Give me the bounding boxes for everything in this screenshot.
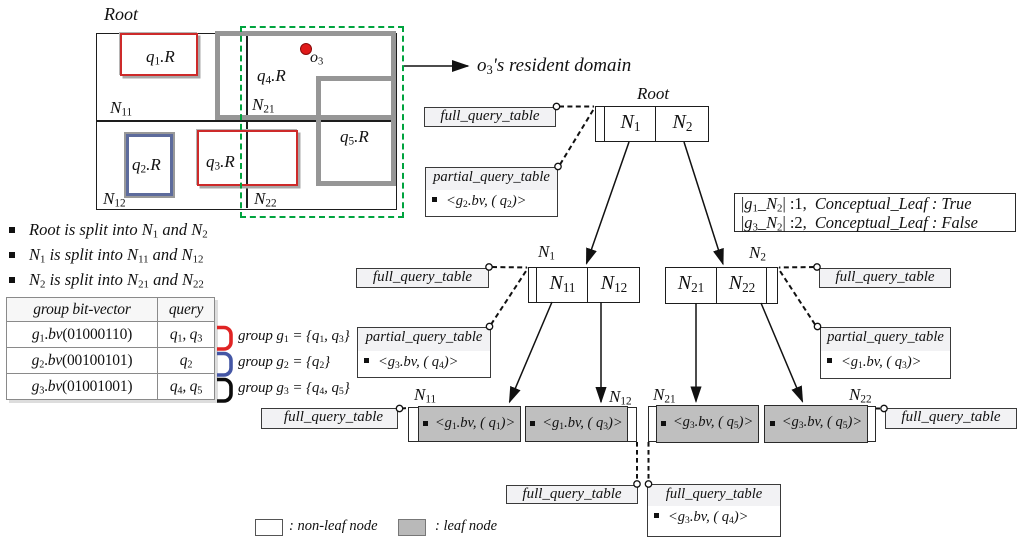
wire arrow Root to N1 — [587, 142, 630, 264]
label o3's resident domain — [477, 55, 631, 77]
label q5.R — [340, 127, 369, 147]
wire vertical split divider — [246, 33, 248, 208]
wire arrow N2 to leaf N21 — [695, 303, 697, 402]
node o3 red dot — [300, 43, 312, 55]
table conceptual leaf info box — [734, 193, 1016, 232]
label q1.R — [146, 47, 175, 67]
label N11 (spatial) — [110, 98, 132, 118]
label Root (spatial) — [104, 4, 138, 25]
node circle pqt-root — [555, 163, 561, 169]
node circle fqt-bottom-N21 — [645, 481, 651, 487]
node circle fqt-bottom-N12 — [634, 481, 640, 487]
wire arrow N1 to leaf N12 — [600, 302, 602, 402]
table partial_query_table (N1) — [357, 327, 491, 378]
wire dashed pqt-N1 to N1 corner — [491, 268, 528, 325]
wire dashed pqt-N2 to N2 corner — [778, 268, 815, 325]
rect q3.R (red) — [197, 130, 298, 186]
legend leaf node box — [398, 519, 426, 536]
label leaf node — [435, 518, 497, 535]
wire dashed N12 down — [636, 442, 638, 481]
label N22 (spatial) — [254, 189, 277, 209]
wire dashed pqt-root to Root corner — [560, 107, 595, 165]
label group g3 — [238, 380, 350, 397]
wire dashed fqt-N2 to N2 corner — [779, 266, 814, 269]
node circle fqt-N1 — [486, 264, 492, 270]
label N21 (leaf) — [653, 385, 676, 405]
table full_query_table (root) — [424, 107, 556, 128]
bracket black group g3 — [217, 380, 231, 402]
rect o3 resident domain (green dashed) — [240, 26, 404, 218]
table partial_query_table (N2) — [820, 327, 951, 379]
label non-leaf node — [289, 518, 378, 535]
label N2 (tree) — [749, 243, 766, 263]
label N12 (spatial) — [103, 189, 126, 209]
node N1 box — [528, 267, 640, 303]
wire dashed fqt-leafleft to N11 — [402, 407, 408, 410]
wire arrow N1 to leaf N11 — [510, 302, 553, 402]
label q2.R — [132, 155, 161, 175]
bracket red group g1 — [217, 328, 231, 350]
table full_query_table (N1) — [356, 268, 489, 289]
node circle fqt-leafright — [881, 405, 887, 411]
bracket blue group g2 — [217, 354, 231, 376]
label Root (tree) — [637, 84, 669, 104]
node leaf N21 — [648, 406, 758, 442]
node Root box — [595, 106, 709, 142]
node leaf N22 — [765, 406, 876, 442]
wire dashed fqt-root to Root corner — [559, 106, 594, 108]
label N11 (leaf) — [414, 385, 436, 405]
wire arrow Root to N2 — [684, 142, 723, 264]
wire dashed fqt-N1 to N1 corner — [492, 266, 527, 269]
node circle fqt-leafleft — [396, 405, 402, 411]
label q4.R — [257, 66, 286, 86]
label N12 (leaf) — [609, 387, 632, 407]
rect q5.R (gray) — [316, 76, 396, 186]
table full_query_table (bottom N12) — [506, 485, 638, 505]
label N1 (tree) — [538, 242, 555, 262]
wire dashed fqt-leafright to N22 — [876, 408, 882, 410]
rect q2.R (blue) — [126, 134, 173, 196]
table full_query_table (bottom N21, with entry) — [647, 484, 781, 537]
label group g1 — [238, 328, 350, 345]
node leaf N12 — [526, 407, 637, 442]
bullet 1: Root is split — [9, 220, 208, 240]
label group g2 — [238, 354, 330, 371]
wire arrow N2 to leaf N22 — [761, 303, 803, 402]
label N22 (leaf) — [849, 385, 872, 405]
node circle fqt-N2 — [814, 264, 820, 270]
rect q4.R (gray) — [215, 31, 396, 120]
bullet 3: N2 is split — [9, 270, 204, 290]
label o3 — [310, 49, 323, 67]
table full_query_table (leaf far left) — [261, 408, 398, 429]
table partial_query_table (root) — [425, 167, 558, 217]
label q3.R — [206, 152, 235, 172]
wire horizontal split divider — [96, 120, 395, 122]
wire dashed N21 down — [648, 442, 650, 481]
legend non-leaf node box — [255, 519, 283, 536]
node N2 box — [665, 267, 778, 304]
table group bit-vector / query — [6, 297, 215, 400]
table full_query_table (N2) — [819, 268, 951, 289]
node circle pqt-N1 — [486, 323, 492, 329]
bullet 2: N1 is split — [9, 245, 203, 265]
label N21 (spatial) — [252, 95, 275, 115]
node circle pqt-N2 — [814, 323, 820, 329]
node circle fqt-root — [553, 103, 559, 109]
node Root outer MBR rectangle — [96, 33, 397, 210]
node leaf N11 — [408, 407, 520, 442]
wire arrow to resident domain label — [404, 65, 468, 67]
rect q1.R (red) — [120, 33, 198, 76]
table full_query_table (leaf far right) — [885, 408, 1017, 430]
